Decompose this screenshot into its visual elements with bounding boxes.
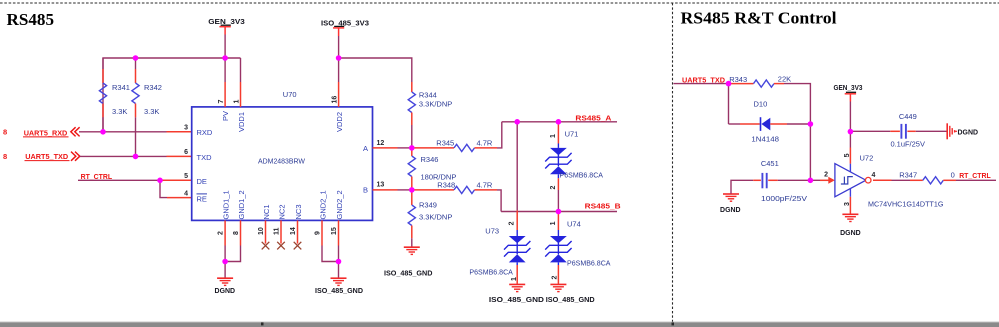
wire R341 top xyxy=(102,58,104,69)
wire D10 cathode to junction xyxy=(787,123,810,125)
svg-text:R348: R348 xyxy=(437,181,455,190)
svg-text:UART5_TXD: UART5_TXD xyxy=(25,152,69,161)
ground ISO_485_GND (under U70) xyxy=(315,278,364,295)
wire A to junction xyxy=(398,147,414,149)
svg-text:8: 8 xyxy=(3,152,7,161)
capacitor C449 xyxy=(890,112,925,149)
off-page connector UART5_TXD xyxy=(3,152,80,161)
svg-text:ISO_485_GND: ISO_485_GND xyxy=(315,286,364,295)
svg-text:1: 1 xyxy=(550,134,557,138)
svg-text:R349: R349 xyxy=(419,201,437,210)
wire R342 top xyxy=(135,58,137,69)
junction RT_CTRL/DE xyxy=(157,178,163,184)
svg-text:TXD: TXD xyxy=(197,153,213,162)
svg-text:NC2: NC2 xyxy=(277,204,286,219)
svg-text:R344: R344 xyxy=(419,91,437,100)
svg-text:14: 14 xyxy=(290,227,297,235)
svg-text:P6SMB6.8CA: P6SMB6.8CA xyxy=(567,259,611,268)
svg-text:VDD2: VDD2 xyxy=(335,112,344,132)
svg-text:U70: U70 xyxy=(283,90,297,99)
svg-text:UART5_RXD: UART5_RXD xyxy=(24,128,68,137)
svg-text:ADM2483BRW: ADM2483BRW xyxy=(258,157,306,166)
wire GND1 join xyxy=(224,246,226,262)
wire GND2 join xyxy=(322,246,339,262)
svg-text:ISO_485_GND: ISO_485_GND xyxy=(546,295,596,304)
svg-text:10: 10 xyxy=(258,227,265,235)
transistor U73 TVS P6SMB6.8CA xyxy=(469,210,530,284)
junction C451 net xyxy=(808,178,814,184)
svg-text:2: 2 xyxy=(550,186,557,190)
transistor U74 TVS P6SMB6.8CA xyxy=(545,212,610,284)
wire GEN_3V3 rail xyxy=(103,58,241,132)
svg-text:4: 4 xyxy=(184,190,188,197)
svg-text:R343: R343 xyxy=(729,75,747,84)
svg-text:GND1_2: GND1_2 xyxy=(237,190,246,219)
svg-text:5: 5 xyxy=(844,153,851,157)
pin 7 stub xyxy=(224,82,226,107)
svg-text:8: 8 xyxy=(233,231,240,235)
transistor U71 TVS P6SMB6.8CA xyxy=(545,122,603,190)
power symbol ISO_485_3V3 xyxy=(321,18,369,36)
resistor R349 xyxy=(408,192,452,238)
junction GEN_3V3/rail xyxy=(222,55,228,61)
resistor R341 xyxy=(99,69,130,117)
power symbol GEN_3V3 (left) xyxy=(208,17,245,35)
svg-text:3: 3 xyxy=(844,202,851,206)
svg-text:U72: U72 xyxy=(860,154,874,163)
wire junction to U72 input xyxy=(810,179,820,181)
svg-text:1000pF/25V: 1000pF/25V xyxy=(761,194,807,203)
wire GEN_3V3 stem (right) xyxy=(849,102,851,132)
ground DGND (rotated, right of C449) xyxy=(947,123,978,139)
svg-text:RE: RE xyxy=(197,194,207,203)
pin A stub xyxy=(373,147,398,149)
wire C451 ground stem xyxy=(731,180,753,193)
op-amp U70 ADM2483BRW body xyxy=(192,90,373,220)
svg-text:R346: R346 xyxy=(421,155,439,164)
junction GEN_3V3/C449 xyxy=(848,129,854,135)
svg-text:8: 8 xyxy=(3,128,7,137)
svg-text:ISO_485_3V3: ISO_485_3V3 xyxy=(321,18,369,27)
svg-text:A: A xyxy=(363,144,368,153)
junction node A xyxy=(409,145,415,151)
svg-text:MC74VHC1G14DTT1G: MC74VHC1G14DTT1G xyxy=(868,199,944,208)
wire RE branch xyxy=(160,180,167,197)
wire GEN_3V3 to pin5 xyxy=(849,131,851,147)
pin 16 stub xyxy=(338,82,340,107)
svg-text:C449: C449 xyxy=(899,112,917,121)
junction GND1 xyxy=(222,259,228,265)
svg-text:GND2_1: GND2_1 xyxy=(318,190,327,219)
svg-text:RS485_B: RS485_B xyxy=(585,201,622,210)
svg-text:R342: R342 xyxy=(144,83,162,92)
svg-text:PV: PV xyxy=(221,111,230,121)
junction R341/RXD xyxy=(100,129,106,135)
pin 2 stub (U72 input) xyxy=(820,179,829,181)
svg-text:D10: D10 xyxy=(754,99,768,108)
svg-text:RS485 R&T Control: RS485 R&T Control xyxy=(681,9,837,28)
svg-text:GND2_2: GND2_2 xyxy=(335,190,344,219)
svg-text:7: 7 xyxy=(218,100,225,104)
junction ISO_485_3V3/rail xyxy=(336,55,342,61)
wire RS485_A down to U73 xyxy=(516,122,518,211)
wire R341 bottom xyxy=(102,117,104,132)
svg-text:C451: C451 xyxy=(761,159,779,168)
wire R347 to RT_CTRL xyxy=(956,179,996,181)
wire ISO_485_GND stem xyxy=(338,262,340,278)
resistor R345 xyxy=(413,138,497,151)
wire pin7 drop xyxy=(224,58,226,82)
wire U71 to RS485_B xyxy=(557,190,559,212)
resistor R347 xyxy=(899,170,956,184)
svg-text:VDD1: VDD1 xyxy=(237,112,246,132)
wire RS485_A xyxy=(502,121,617,123)
svg-text:GEN_3V3: GEN_3V3 xyxy=(834,83,863,92)
svg-text:4.7R: 4.7R xyxy=(477,138,493,147)
wire RXD net xyxy=(79,131,167,133)
svg-text:R341: R341 xyxy=(112,83,130,92)
svg-text:4.7R: 4.7R xyxy=(477,181,493,190)
svg-text:3: 3 xyxy=(184,124,188,131)
svg-text:2: 2 xyxy=(824,172,828,179)
svg-text:GND1_1: GND1_1 xyxy=(221,190,230,219)
resistor R343 xyxy=(729,75,792,88)
svg-text:RT_CTRL: RT_CTRL xyxy=(959,171,991,180)
wire ISO_485_3V3 stem xyxy=(338,36,340,58)
wire pin1 drop xyxy=(240,58,242,82)
svg-text:2: 2 xyxy=(218,231,225,235)
ground ISO_485_GND (U74) xyxy=(546,284,596,304)
pin B stub xyxy=(373,189,398,191)
resistor R348 xyxy=(413,181,497,194)
svg-text:11: 11 xyxy=(274,227,281,235)
diode D10 1N4148 xyxy=(740,99,787,143)
svg-text:0: 0 xyxy=(951,170,955,179)
svg-text:DGND: DGND xyxy=(720,205,741,214)
wire RT_CTRL xyxy=(78,179,160,181)
svg-text:1: 1 xyxy=(550,221,557,225)
pin 4 stub RE xyxy=(167,197,192,199)
wire R349 to ground xyxy=(411,238,413,247)
svg-text:ISO_485_GND: ISO_485_GND xyxy=(489,295,545,304)
svg-text:1: 1 xyxy=(233,100,240,104)
wire RS485_B xyxy=(501,211,617,213)
junction GND2 xyxy=(336,259,342,265)
wire C449 to DGND xyxy=(916,130,947,132)
junction R342/rail xyxy=(133,55,139,61)
junction R343/D10 out xyxy=(808,121,814,127)
svg-text:DE: DE xyxy=(197,177,207,186)
wire ISO rail xyxy=(339,58,412,80)
svg-text:12: 12 xyxy=(377,140,385,147)
ground DGND (left of C451) xyxy=(720,194,741,214)
wire C451 to junction xyxy=(778,179,811,181)
wire D10 anode xyxy=(729,123,741,125)
wire D10 branch down xyxy=(728,84,730,124)
svg-text:22K: 22K xyxy=(778,75,791,84)
svg-text:P6SMB6.8CA: P6SMB6.8CA xyxy=(560,171,604,180)
svg-text:RXD: RXD xyxy=(197,128,213,137)
svg-text:RS485_A: RS485_A xyxy=(575,114,612,123)
svg-text:3.3K: 3.3K xyxy=(112,107,127,116)
svg-text:R345: R345 xyxy=(436,138,454,147)
svg-text:13: 13 xyxy=(377,182,385,189)
svg-text:U71: U71 xyxy=(565,130,579,139)
svg-text:GEN_3V3: GEN_3V3 xyxy=(208,17,245,26)
junction RS485_A/U71 xyxy=(556,119,562,125)
resistor R344 xyxy=(408,82,452,125)
svg-text:RS485: RS485 xyxy=(7,10,55,29)
junction R342/TXD xyxy=(133,154,139,160)
pin 5 stub DE xyxy=(160,179,192,181)
wire R342 bottom crossing RXD xyxy=(135,117,137,156)
svg-text:R347: R347 xyxy=(899,170,917,179)
svg-text:9: 9 xyxy=(315,231,322,235)
svg-text:6: 6 xyxy=(184,149,188,156)
wire C449 net xyxy=(850,130,890,132)
wire output to R347 xyxy=(892,179,911,181)
svg-text:0.1uF/25V: 0.1uF/25V xyxy=(890,140,925,149)
wire R348 to RS485_B xyxy=(497,190,501,212)
pin 1 stub xyxy=(240,82,242,107)
op-amp U72 inverter MC74VHC1G14DTT1G xyxy=(835,154,944,209)
svg-text:NC3: NC3 xyxy=(294,204,303,219)
wire R344 bottom xyxy=(411,125,413,148)
svg-text:U74: U74 xyxy=(567,219,581,228)
svg-text:U73: U73 xyxy=(485,227,499,236)
wire B to junction xyxy=(398,189,414,191)
svg-text:DGND: DGND xyxy=(215,286,236,295)
pin 3 stub RXD xyxy=(167,131,192,133)
wire GEN_3V3 stem xyxy=(224,35,226,59)
svg-text:16: 16 xyxy=(331,96,338,104)
off-page connector UART5_RXD xyxy=(3,127,80,137)
resistor R342 xyxy=(132,69,162,117)
wire R345 to RS485_A xyxy=(497,122,502,148)
svg-text:RT_CTRL: RT_CTRL xyxy=(81,172,113,181)
svg-text:P6SMB6.8CA: P6SMB6.8CA xyxy=(469,268,513,277)
wire pin16 drop xyxy=(338,58,340,82)
svg-text:DGND: DGND xyxy=(958,127,979,136)
wire down to C451 net xyxy=(809,124,811,180)
junction UART5_TXD/R343/D10 xyxy=(726,81,732,87)
ground ISO_485_GND (under R349) xyxy=(384,247,433,277)
wire R349 top xyxy=(411,190,413,192)
junction RS485_A/U73 xyxy=(514,119,520,125)
pin 6 stub TXD xyxy=(167,155,192,157)
wire UART5_TXD xyxy=(673,83,728,85)
svg-text:3.3K/DNP: 3.3K/DNP xyxy=(419,213,452,222)
pin 5 stub (U72 VCC) xyxy=(849,148,851,164)
ground DGND (U72 pin3) xyxy=(840,214,861,237)
svg-text:5: 5 xyxy=(184,173,188,180)
svg-text:2: 2 xyxy=(552,276,559,280)
svg-text:2: 2 xyxy=(509,221,516,225)
svg-text:DGND: DGND xyxy=(840,228,861,237)
svg-text:4: 4 xyxy=(872,172,876,179)
wire TXD net xyxy=(80,155,167,157)
svg-text:3.3K/DNP: 3.3K/DNP xyxy=(419,99,452,108)
wire R344 top xyxy=(411,80,413,83)
wire R343 out to corner xyxy=(784,84,810,124)
junction RS485_B/U71/U74 xyxy=(556,209,562,215)
capacitor C451 xyxy=(753,159,807,203)
resistor R346 xyxy=(408,148,456,190)
ground DGND (under U70) xyxy=(215,278,236,295)
NC pin stubs with X xyxy=(265,220,267,243)
svg-text:15: 15 xyxy=(331,227,338,235)
ground ISO_485_GND (U73) xyxy=(489,284,545,304)
bottom pin stubs 9,15 xyxy=(321,220,323,245)
power symbol GEN_3V3 (right) xyxy=(834,83,863,102)
pin 4 stub (U72 output) xyxy=(873,179,892,181)
svg-text:NC1: NC1 xyxy=(262,204,271,219)
svg-text:1: 1 xyxy=(511,277,518,281)
bottom pin stubs 2,8 xyxy=(224,220,226,245)
pin 3 stub (U72 GND) xyxy=(849,197,851,214)
wire DGND stem xyxy=(224,262,226,278)
junction node B xyxy=(409,187,415,193)
no-connect X marks xyxy=(262,242,302,250)
svg-text:1N4148: 1N4148 xyxy=(751,134,779,143)
svg-text:3.3K: 3.3K xyxy=(144,107,159,116)
svg-text:ISO_485_GND: ISO_485_GND xyxy=(384,269,433,278)
svg-text:B: B xyxy=(363,186,368,195)
